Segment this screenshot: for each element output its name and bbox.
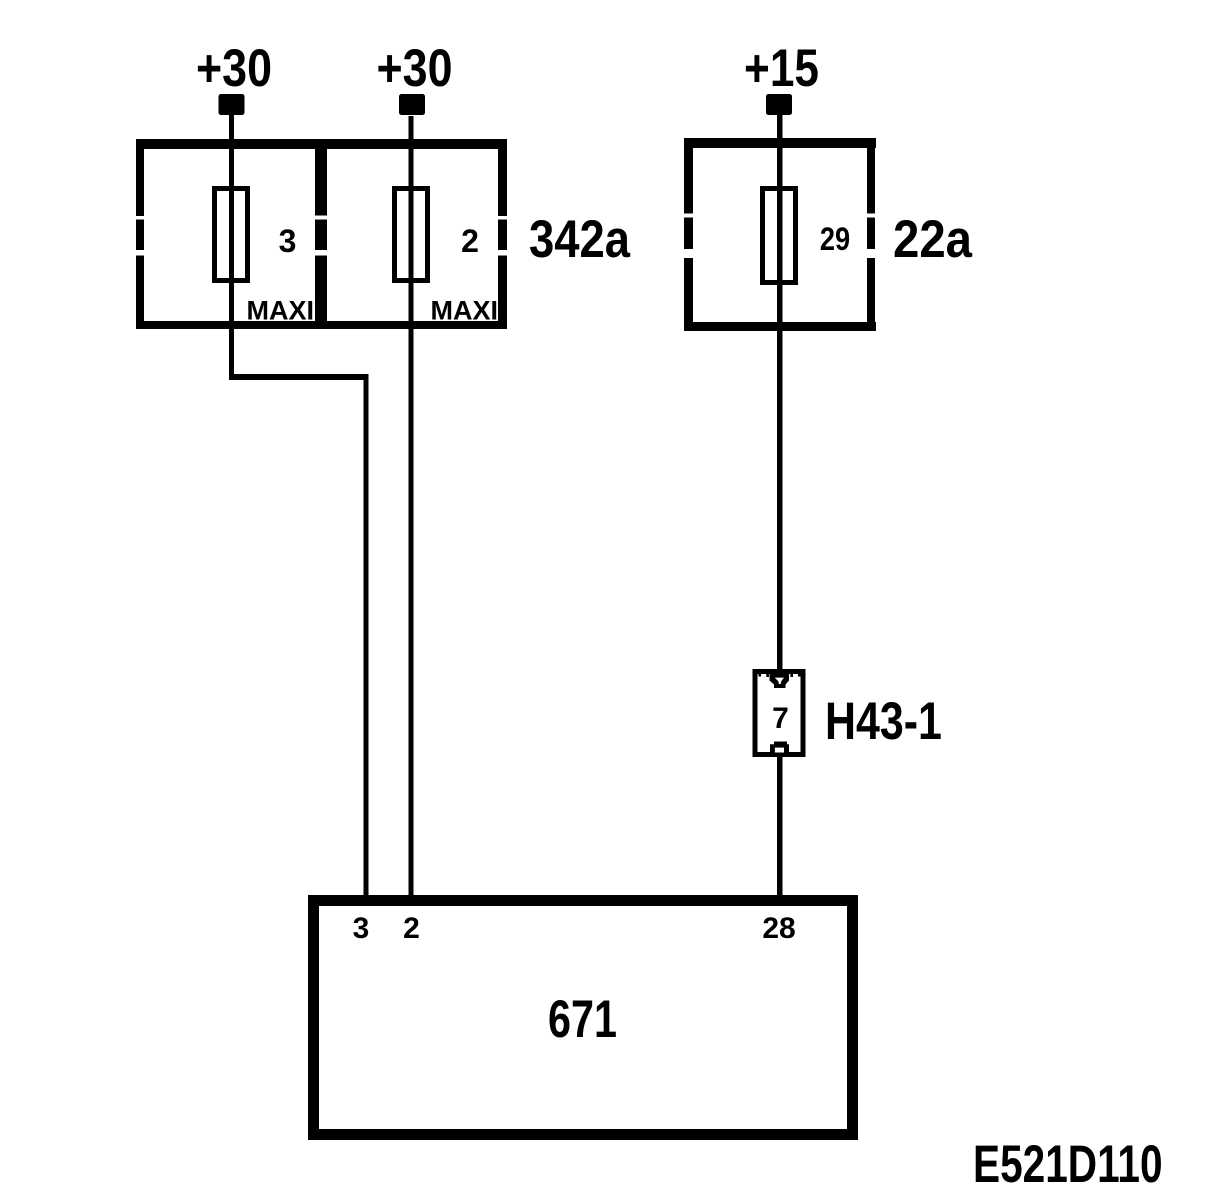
terminal +15 [766,94,792,115]
fuse F2 symbol [395,189,428,281]
connector label H43-1 [825,692,942,751]
wire from connector H43-1 down to 671 pin 28 [777,755,783,895]
fuse F29 symbol [763,189,796,283]
svg-text:H43-1: H43-1 [825,692,942,751]
svg-text:3: 3 [279,223,297,259]
svg-text:MAXI: MAXI [431,296,499,326]
fuse holder box 22a [684,138,876,331]
fuse box label 22a [893,210,973,269]
wire from +15 down through fuse 29 to connector H43-1 [777,115,783,673]
connector H43-1 body [755,672,803,755]
svg-text:671: 671 [548,990,617,1049]
svg-text:2: 2 [403,912,420,945]
control module 671 box [314,901,853,1135]
node +30 (middle) label [377,40,453,98]
fuse F3 symbol [215,189,248,281]
node +30 (left) label [196,40,272,98]
svg-text:29: 29 [820,222,850,258]
drawing number E521D110 [973,1135,1163,1195]
svg-text:+30: +30 [377,40,453,98]
fuse box label 342a [529,210,631,269]
terminal +30 left [219,94,245,115]
svg-text:E521D110: E521D110 [973,1135,1163,1195]
svg-text:+15: +15 [744,39,819,98]
connector H43-1 socket symbol (top) [770,674,790,689]
node +15 label [744,39,819,98]
svg-text:7: 7 [772,702,789,735]
svg-text:+30: +30 [196,40,272,98]
connector H43-1 pin symbol (bottom) [770,742,789,753]
module label 671 [548,990,617,1049]
svg-text:2: 2 [461,223,479,259]
fuse holder box 342a: top edge [136,139,507,329]
terminal +30 middle [399,94,425,115]
wire from +30 left down through fuse 3 to jog [229,115,234,380]
fuse F29 value label 29 [820,222,850,258]
svg-text:342a: 342a [529,210,631,269]
svg-text:28: 28 [762,912,795,945]
wire from +30 middle down through fuse 2 to 671 pin 2 [409,116,414,895]
svg-text:22a: 22a [893,210,973,269]
svg-text:3: 3 [353,912,370,945]
svg-text:MAXI: MAXI [247,296,315,326]
wire jog horizontal [229,374,368,380]
wire jog vertical down to 671 pin 3 [364,374,369,895]
